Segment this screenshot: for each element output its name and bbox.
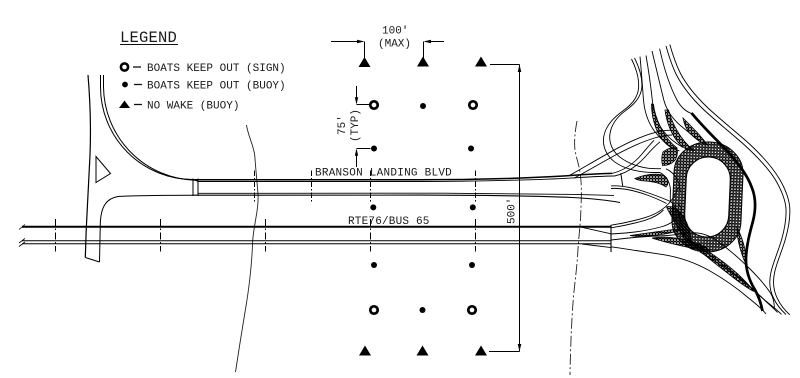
- 500' vertical dimension line: [519, 65, 521, 352]
- right shoreline: [570, 121, 581, 375]
- no-wake buoy triangles top row: [359, 57, 371, 67]
- no-wake buoy triangles bottom row: [359, 346, 371, 356]
- ring exit sw channel edge: [686, 238, 782, 315]
- dim connector to 500 line: [490, 64, 520, 66]
- island wedge between loop and ring tl: [662, 148, 678, 166]
- dim 100 max left line: [331, 41, 363, 43]
- nw loop ramp inner edge: [610, 58, 661, 169]
- arrow up 75 typ: [355, 149, 358, 156]
- top bundle line L2: [640, 57, 680, 151]
- ramp curve inner: [101, 75, 194, 180]
- upbranch south edge A: [611, 204, 681, 235]
- west channel right edge: [666, 169, 681, 193]
- top bundle line L4: [652, 51, 699, 141]
- east end line: [621, 173, 623, 186]
- svg-text:(MAX): (MAX): [378, 39, 411, 51]
- right edge outer line 2: [670, 45, 790, 315]
- hatched islands: [630, 104, 754, 292]
- 75' typ lower segment: [356, 150, 358, 167]
- west abutment lines: [192, 179, 194, 197]
- arrow left at 100max right: [424, 40, 432, 44]
- upper road bottom inner line: [198, 193, 614, 195]
- eye bottom edge inner: [611, 210, 664, 228]
- vertical road bottom end cap: [85, 258, 99, 263]
- east taper top: [582, 227, 611, 234]
- dim 100 max right line: [425, 41, 444, 43]
- eye top edge outer: [611, 186, 686, 238]
- arrow right at 100max left: [357, 40, 365, 44]
- arrow down at 500 bottom: [518, 344, 522, 352]
- upper road pier ticks: [255, 171, 476, 204]
- svg-text:BRANSON LANDING BLVD: BRANSON LANDING BLVD: [315, 168, 452, 180]
- west channel left edge: [660, 173, 671, 202]
- island wedge above eye: [635, 174, 668, 187]
- island wedge sw of ring: [667, 207, 692, 246]
- se fillet: [100, 195, 193, 224]
- legend no-wake symbol: [119, 101, 130, 109]
- lower mid line B: [611, 233, 775, 309]
- nw approach lane outer: [570, 130, 671, 175]
- island wedge n of ring b: [665, 110, 694, 151]
- right edge outer line 1: [666, 46, 786, 315]
- eye bottom edge outer: [611, 187, 679, 225]
- island wedge s of ring: [690, 242, 754, 292]
- nw approach lane inner: [574, 135, 672, 178]
- svg-text:75': 75': [337, 115, 349, 135]
- hatched ring: [671, 141, 745, 254]
- arrow up at 500 top: [518, 65, 522, 73]
- upper road bottom outer edge: [193, 195, 620, 202]
- legend buoy symbol: [122, 82, 128, 88]
- arrow down 75 typ: [355, 97, 358, 104]
- island sliver lower fan: [652, 237, 710, 250]
- nw loop ramp outer edge: [603, 59, 660, 173]
- west end break marks: [19, 225, 25, 247]
- arrowheads: [355, 40, 522, 352]
- gore triangle island: [96, 157, 111, 183]
- 75' typ upper segment: [356, 86, 358, 103]
- svg-text:500': 500': [507, 198, 519, 224]
- vertical road right edge lower: [99, 224, 102, 262]
- upper road top inner line: [198, 176, 615, 182]
- lower road bent ticks: [56, 219, 476, 252]
- ring bottom exit edge: [700, 252, 778, 313]
- left shoreline: [236, 125, 259, 372]
- vertical road left edge: [85, 75, 90, 258]
- east end wall: [610, 225, 612, 252]
- lower road bottom line 1: [22, 240, 611, 242]
- thick emphasized edge line: [692, 113, 763, 311]
- island sliver se of ring: [737, 227, 746, 265]
- lower road bottom edge C: [611, 247, 766, 314]
- keep-out sign rings row2: [370, 101, 476, 313]
- ramp curve outer: [104, 75, 199, 181]
- up branch inner arc: [615, 142, 661, 176]
- top bundle line L3: [646, 56, 683, 148]
- island wedge n of ring a: [652, 104, 678, 148]
- island sliver upper fan: [630, 229, 683, 236]
- island wedge c n of ring: [683, 118, 708, 145]
- lower road top edge thick: [22, 226, 611, 228]
- east taper bottom: [582, 244, 611, 248]
- up branch outer arc: [612, 140, 654, 173]
- lower road bottom line 2: [22, 243, 611, 245]
- svg-text:BOATS KEEP OUT (SIGN): BOATS KEEP OUT (SIGN): [147, 63, 286, 75]
- upper road top outer edge: [193, 173, 612, 179]
- legend sign symbol: [121, 63, 128, 70]
- svg-text:100': 100': [382, 26, 408, 38]
- svg-text:(TYP): (TYP): [350, 109, 362, 142]
- svg-text:NO WAKE (BUOY): NO WAKE (BUOY): [147, 101, 239, 113]
- keep-out buoy dots: [370, 103, 476, 313]
- svg-text:BOATS KEEP OUT (BUOY): BOATS KEEP OUT (BUOY): [147, 81, 286, 93]
- top bundle line L5: [660, 49, 692, 114]
- eye top edge inner: [611, 188, 667, 203]
